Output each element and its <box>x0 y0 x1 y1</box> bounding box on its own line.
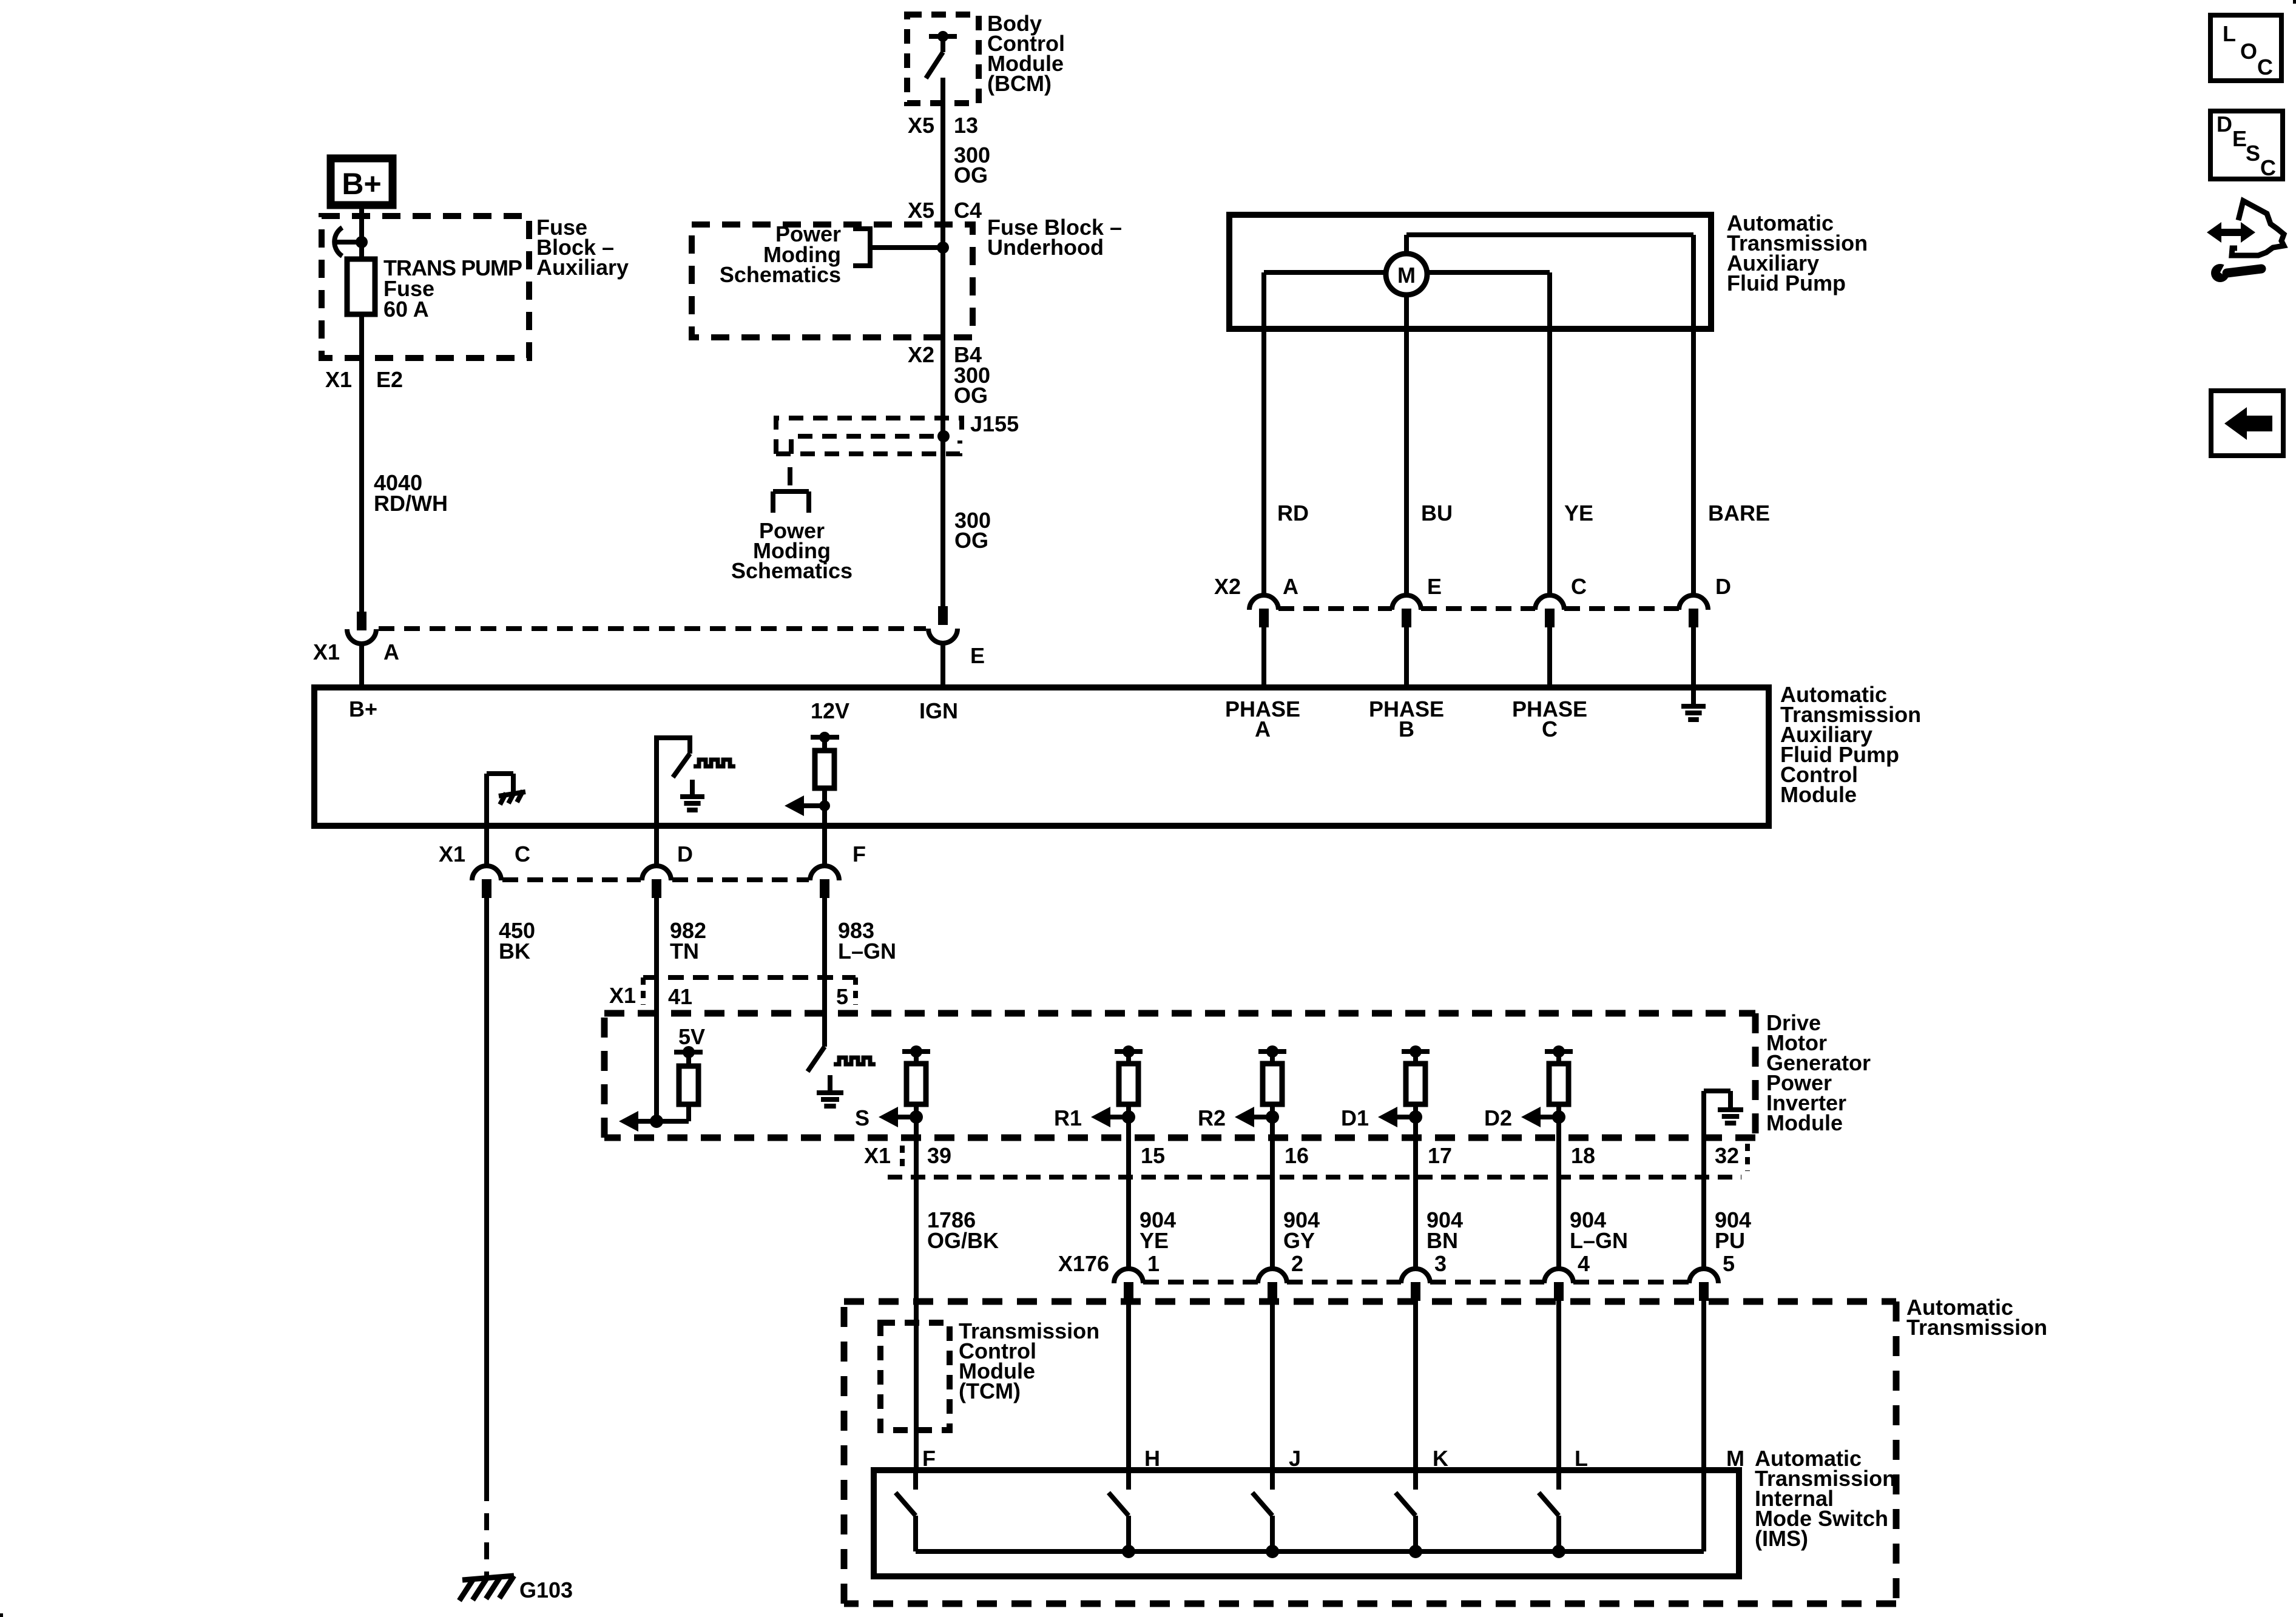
wire label 300 OG (middle) <box>954 363 990 408</box>
label pin 41 <box>668 984 692 1009</box>
wire X2 pin to module <box>1404 627 1409 687</box>
label Body Control Module (BCM) <box>987 11 1065 96</box>
svg-text:G103: G103 <box>519 1578 573 1602</box>
wire 904 PU <box>1701 1177 1706 1269</box>
connector X176 pin 3 <box>1401 1269 1430 1301</box>
wire label 300 OG (upper) <box>954 143 990 187</box>
svg-text:41: 41 <box>668 984 692 1009</box>
wire module to X1 connector <box>822 826 827 866</box>
svg-text:RD: RD <box>1277 501 1309 525</box>
transmission control module TCM dashed box <box>880 1323 950 1430</box>
label Drive Motor Generator Power Inverter Module <box>1766 1010 1871 1135</box>
label pin 39 <box>927 1143 951 1168</box>
svg-text:17: 17 <box>1428 1143 1452 1168</box>
label X176 <box>1058 1251 1109 1276</box>
svg-text:X176: X176 <box>1058 1251 1109 1276</box>
connector X176 pin 4 <box>1544 1269 1573 1301</box>
svg-text:A: A <box>1283 574 1298 599</box>
svg-text:A: A <box>383 640 399 664</box>
svg-text:IGN: IGN <box>919 698 958 723</box>
svg-text:X1: X1 <box>609 983 636 1008</box>
wire 904 L-GN <box>1556 1177 1561 1269</box>
svg-text:C: C <box>2257 55 2273 79</box>
svg-text:F: F <box>853 842 866 866</box>
DESC reference box <box>2210 111 2283 180</box>
connector row X1 39|15|16|17|18|32 dotted <box>888 1175 1741 1180</box>
svg-text:C: C <box>2260 155 2276 180</box>
fuse clip terminal symbol <box>334 228 358 256</box>
svg-text:A: A <box>1255 717 1271 741</box>
svg-text:Transmission: Transmission <box>1906 1315 2047 1340</box>
label X1 A <box>313 640 399 664</box>
wire label 904 BN <box>1427 1207 1463 1253</box>
label pin J <box>1289 1446 1301 1471</box>
svg-text:R1: R1 <box>1054 1106 1082 1130</box>
label D1 <box>1341 1106 1369 1130</box>
junction node on fuse feed <box>356 236 368 248</box>
dashed harness line X1 C-D-F <box>502 877 809 882</box>
label TRANS PUMP Fuse 60 A <box>383 255 522 322</box>
svg-text:GY: GY <box>1283 1228 1315 1253</box>
svg-text:(TCM): (TCM) <box>959 1379 1021 1403</box>
svg-text:5: 5 <box>836 984 848 1009</box>
label pin C <box>1571 574 1587 599</box>
svg-text:D: D <box>1715 574 1731 599</box>
label pin 2 <box>1291 1251 1303 1276</box>
inverter input switch to ground (pin 5) <box>808 1047 843 1106</box>
svg-text:39: 39 <box>927 1143 951 1168</box>
pin label X5 | C4 <box>908 198 982 223</box>
svg-text:15: 15 <box>1141 1143 1165 1168</box>
inverter pullup + output arrow R2 <box>1235 1045 1286 1127</box>
wire X2 pin to module <box>1547 627 1552 687</box>
wire 982 TN <box>654 898 659 1121</box>
label X2 connector row <box>1214 574 1241 599</box>
svg-text:L: L <box>1575 1446 1588 1471</box>
svg-text:OG/BK: OG/BK <box>927 1228 999 1253</box>
svg-text:J155: J155 <box>970 411 1019 436</box>
svg-text:5V: 5V <box>678 1024 705 1049</box>
svg-text:J: J <box>1289 1446 1301 1471</box>
module internal ground (pin D of X2) <box>1681 687 1706 720</box>
wire label 904 PU <box>1715 1207 1751 1253</box>
svg-text:E: E <box>1427 574 1442 599</box>
wires pullups to pin row <box>916 1117 1559 1177</box>
inverter sensor feed arrow (pin 41) <box>619 1111 663 1132</box>
inverter pullup + output arrow D2 <box>1521 1045 1573 1127</box>
svg-text:Module: Module <box>1766 1110 1843 1135</box>
label pin 1 <box>1147 1251 1160 1276</box>
svg-text:M: M <box>1397 263 1416 288</box>
label pin F <box>853 842 866 866</box>
svg-text:E: E <box>2232 126 2247 151</box>
svg-text:16: 16 <box>1285 1143 1309 1168</box>
wire B+ to TRANS PUMP fuse <box>359 205 364 261</box>
wire 904 GY <box>1270 1177 1275 1269</box>
connector X2 pin D <box>1679 595 1708 627</box>
wire label YE <box>1564 501 1593 525</box>
label pin 15 <box>1141 1143 1165 1168</box>
svg-text:X1: X1 <box>439 842 465 866</box>
label pin H <box>1144 1446 1160 1471</box>
label Automatic Transmission Auxiliary Fluid Pump Control Module <box>1780 682 1921 807</box>
svg-text:Schematics: Schematics <box>720 262 841 287</box>
label J155 <box>970 411 1019 436</box>
svg-text:OG: OG <box>954 383 988 408</box>
inverter pullup + output arrow R1 <box>1091 1045 1143 1127</box>
label pin 5 <box>836 984 848 1009</box>
svg-text:2: 2 <box>1291 1251 1303 1276</box>
wire connector A to module <box>359 643 364 687</box>
IMS common bus <box>916 1545 1704 1558</box>
label R1 <box>1054 1106 1082 1130</box>
BCM internal switch <box>926 31 957 103</box>
label pin D <box>677 842 693 866</box>
label Automatic Transmission Internal Mode Switch (IMS) <box>1755 1446 1896 1551</box>
IMS switch <box>1252 1470 1272 1551</box>
wire X2 pin to module <box>1261 627 1266 687</box>
svg-text:BU: BU <box>1421 501 1453 525</box>
svg-text:YE: YE <box>1564 501 1593 525</box>
svg-text:Underhood: Underhood <box>987 235 1104 260</box>
service icon wrench <box>2211 261 2261 282</box>
connector X2 pin C <box>1535 595 1564 627</box>
svg-text:5: 5 <box>1723 1251 1735 1276</box>
svg-text:C: C <box>515 842 530 866</box>
wire BCM to fuse block underhood <box>940 103 945 606</box>
wire module to X1 connector <box>484 826 489 866</box>
svg-text:13: 13 <box>954 113 978 138</box>
svg-text:O: O <box>2240 39 2257 64</box>
svg-text:Schematics: Schematics <box>731 558 853 583</box>
svg-text:B+: B+ <box>342 167 381 201</box>
svg-text:E: E <box>970 643 985 668</box>
svg-text:L–GN: L–GN <box>838 939 896 964</box>
service icon panel outline <box>2232 201 2284 255</box>
connector X2 pin E <box>1392 595 1421 627</box>
wire label 983 L-GN <box>838 918 896 964</box>
body control module BCM dashed outline <box>907 15 979 103</box>
power symbol B+ (battery feed box) <box>331 158 393 205</box>
label pin 4 <box>1578 1251 1590 1276</box>
motor M symbol <box>1386 254 1427 295</box>
label B+ (module pin) <box>349 697 377 721</box>
label pin D <box>1715 574 1731 599</box>
connector X1 pin F <box>810 866 839 898</box>
connector X176 pin 1 <box>1114 1269 1143 1301</box>
IMS common wire pin M <box>1701 1470 1706 1551</box>
label pin K <box>1433 1446 1448 1471</box>
wire module to X1 connector <box>654 826 659 866</box>
dashed branch to power moding schematics <box>788 456 792 489</box>
svg-text:Auxiliary: Auxiliary <box>536 255 629 280</box>
svg-text:4: 4 <box>1578 1251 1590 1276</box>
inverter 5V pullup resistor <box>657 1046 703 1121</box>
svg-text:18: 18 <box>1571 1143 1595 1168</box>
label pin C <box>515 842 530 866</box>
label R2 <box>1198 1106 1226 1130</box>
page mark bottom left <box>0 1613 3 1617</box>
auto trans auxiliary fluid pump outline <box>1229 215 1711 329</box>
connector pin E (ignition feed) <box>928 606 957 643</box>
auto trans aux fluid pump control module box <box>314 687 1769 826</box>
svg-text:BARE: BARE <box>1708 501 1770 525</box>
svg-text:L: L <box>2223 21 2236 46</box>
wire label BARE <box>1708 501 1770 525</box>
connector X1 pin D <box>642 866 671 898</box>
drive motor generator power inverter module dashed box <box>604 1013 1755 1138</box>
label S <box>855 1106 869 1130</box>
label Fuse Block - Underhood <box>987 215 1122 260</box>
IMS switch <box>1109 1470 1129 1551</box>
label pin 32 <box>1715 1143 1747 1171</box>
svg-text:X1: X1 <box>864 1143 891 1168</box>
svg-text:(BCM): (BCM) <box>987 71 1052 96</box>
wire X176 pin into transmission <box>1556 1301 1561 1470</box>
label pin F <box>922 1446 936 1471</box>
pump phase A lead <box>1264 272 1391 596</box>
wire X176 pin into transmission <box>1126 1301 1131 1470</box>
svg-text:R2: R2 <box>1198 1106 1226 1130</box>
label Automatic Transmission Auxiliary Fluid Pump <box>1727 211 1868 295</box>
label Automatic Transmission <box>1906 1295 2047 1340</box>
label pin L <box>1575 1446 1588 1471</box>
dashed wire to ground G103 <box>484 1501 489 1578</box>
inverter pullup + output arrow D1 <box>1378 1045 1430 1127</box>
bracket above power moding text <box>773 491 809 513</box>
svg-text:M: M <box>1726 1446 1744 1471</box>
svg-text:X1: X1 <box>325 367 352 392</box>
label G103 <box>519 1578 573 1602</box>
connector X2 pin A <box>1249 595 1278 627</box>
svg-text:Fluid Pump: Fluid Pump <box>1727 271 1846 295</box>
wire X2 pin to module <box>1691 627 1696 687</box>
junction node J155 <box>937 430 950 442</box>
dashed harness line X176 row <box>1143 1280 1689 1284</box>
wire label 904 L-GN <box>1570 1207 1628 1253</box>
wire 983 L-GN <box>822 898 827 1047</box>
label IGN (module pin) <box>919 698 958 723</box>
back arrow box <box>2211 391 2283 456</box>
label X1 (lower row) <box>439 842 465 866</box>
internal mode switch IMS box <box>874 1470 1739 1576</box>
svg-text:C: C <box>1542 717 1558 741</box>
label Transmission Control Module (TCM) <box>959 1318 1099 1403</box>
svg-text:X2: X2 <box>908 342 934 367</box>
wire E to module <box>940 643 945 687</box>
connector X176 pin 5 <box>1689 1269 1718 1301</box>
svg-text:X2: X2 <box>1214 574 1241 599</box>
svg-text:Module: Module <box>1780 782 1857 807</box>
label 12V <box>811 698 849 723</box>
svg-text:B+: B+ <box>349 697 377 721</box>
svg-text:D: D <box>677 842 693 866</box>
fuse block underhood dashed outline <box>692 224 973 337</box>
wire label 1786 OG/BK <box>927 1207 999 1253</box>
inverter internal ground (pin 32) <box>1704 1091 1743 1177</box>
svg-text:S: S <box>855 1106 869 1130</box>
pin label X1 | E2 <box>325 367 403 392</box>
svg-text:D1: D1 <box>1341 1106 1369 1130</box>
svg-text:F: F <box>922 1446 936 1471</box>
svg-text:TN: TN <box>670 939 699 964</box>
wire 1786 OG/BK <box>914 1177 919 1470</box>
label D2 <box>1484 1106 1512 1130</box>
connector X176 pin 2 <box>1258 1269 1287 1301</box>
IMS switch <box>1396 1470 1416 1551</box>
pin label X2 | B4 <box>908 342 982 367</box>
svg-text:E2: E2 <box>376 367 403 392</box>
LOC reference box <box>2210 15 2281 81</box>
svg-text:12V: 12V <box>811 698 849 723</box>
svg-text:L–GN: L–GN <box>1570 1228 1628 1253</box>
wire X176 pin into transmission <box>1701 1301 1706 1470</box>
wire 904 YE <box>1126 1177 1131 1269</box>
svg-text:OG: OG <box>954 528 988 553</box>
ground G103 symbol <box>459 1576 514 1601</box>
svg-text:3: 3 <box>1434 1251 1447 1276</box>
automatic transmission dashed box <box>844 1301 1896 1604</box>
svg-text:YE: YE <box>1140 1228 1169 1253</box>
IMS switch <box>896 1470 916 1551</box>
wire label 300 OG (lower) <box>954 508 991 553</box>
svg-text:X5: X5 <box>908 113 934 138</box>
svg-text:H: H <box>1144 1446 1160 1471</box>
label pin 18 <box>1571 1143 1595 1168</box>
label pin M <box>1726 1446 1744 1471</box>
label Fuse Block - Auxiliary <box>536 215 629 280</box>
label pin E <box>1427 574 1442 599</box>
module internal pullup to 12V (pin F) <box>811 732 839 826</box>
fuse F1 TRANS PUMP 60A body <box>347 259 375 314</box>
label X1 (41/5 row) <box>609 983 636 1008</box>
connector X1 pin A (to pump control module) <box>347 612 376 644</box>
svg-text:D2: D2 <box>1484 1106 1512 1130</box>
label pin 17 <box>1428 1143 1452 1168</box>
wire 904 BN <box>1413 1177 1418 1269</box>
svg-text:BN: BN <box>1427 1228 1458 1253</box>
inverter pullup + output arrow S <box>879 1045 930 1127</box>
wire label 450 BK <box>499 918 535 964</box>
label E <box>970 643 985 668</box>
svg-text:(IMS): (IMS) <box>1755 1526 1808 1551</box>
inverter PWM squarewave symbol <box>834 1058 876 1064</box>
module PWM squarewave symbol <box>694 760 735 766</box>
label pin A <box>1283 574 1298 599</box>
pump motor top link to bare lead <box>1406 235 1693 596</box>
svg-text:PU: PU <box>1715 1228 1745 1253</box>
pin label X5 | 13 <box>908 113 978 138</box>
wire label 904 GY <box>1283 1207 1320 1253</box>
svg-text:X5: X5 <box>908 198 934 223</box>
svg-text:S: S <box>2246 141 2260 166</box>
junction node at C4 feed <box>937 241 949 254</box>
svg-text:OG: OG <box>954 163 988 187</box>
splice J155 dashed outline <box>776 418 962 454</box>
label Power Moding Schematics (lower) <box>731 518 853 583</box>
pump phase C lead <box>1422 272 1550 596</box>
label Power Moding Schematics (in fuse block) <box>720 221 841 287</box>
wire X176 pin into transmission <box>1270 1301 1275 1470</box>
module internal driver switch (pin D) <box>654 738 704 826</box>
svg-text:60 A: 60 A <box>383 297 429 322</box>
page mark top right <box>2293 0 2296 4</box>
label pin 16 <box>1285 1143 1309 1168</box>
label PHASE C <box>1512 697 1587 741</box>
wire label 904 YE <box>1140 1207 1176 1253</box>
pump phase B lead <box>1404 295 1409 596</box>
svg-text:1: 1 <box>1147 1251 1160 1276</box>
svg-text:RD/WH: RD/WH <box>374 491 448 516</box>
fuse block auxiliary dashed outline <box>322 216 529 358</box>
connector X1 pin C <box>472 866 501 898</box>
dashed harness line X1 A to E <box>379 626 926 631</box>
svg-text:B: B <box>1399 717 1414 741</box>
svg-text:K: K <box>1433 1446 1448 1471</box>
svg-text:32: 32 <box>1715 1143 1739 1168</box>
svg-text:D: D <box>2217 112 2232 137</box>
module signal output arrow (pin F) <box>785 795 830 816</box>
wire label BU <box>1421 501 1453 525</box>
svg-text:BK: BK <box>499 939 530 964</box>
connector row X1 41|5 dashed <box>643 977 856 1005</box>
wire X176 pin into transmission <box>1413 1301 1418 1470</box>
dashed harness line X2 row <box>1278 606 1679 611</box>
service icon double arrow <box>2207 222 2255 243</box>
label 5V <box>678 1024 705 1049</box>
svg-text:C: C <box>1571 574 1587 599</box>
label pin 3 <box>1434 1251 1447 1276</box>
IMS switch <box>1539 1470 1559 1551</box>
svg-text:X1: X1 <box>313 640 340 664</box>
wire label 4040 RD/WH <box>374 470 448 516</box>
label pin 5 <box>1723 1251 1735 1276</box>
wire label 982 TN <box>670 918 706 964</box>
label PHASE B <box>1369 697 1444 741</box>
wire label RD <box>1277 501 1309 525</box>
svg-text:C4: C4 <box>954 198 982 223</box>
wire fuse to connector X1-E2 <box>359 314 364 612</box>
label PHASE A <box>1225 697 1300 741</box>
module internal chassis ground (pin C) <box>487 774 525 826</box>
bracket to power moding schematics <box>853 226 943 268</box>
label X1 (39 row) <box>864 1143 902 1171</box>
wire 450 BK <box>484 898 489 1501</box>
